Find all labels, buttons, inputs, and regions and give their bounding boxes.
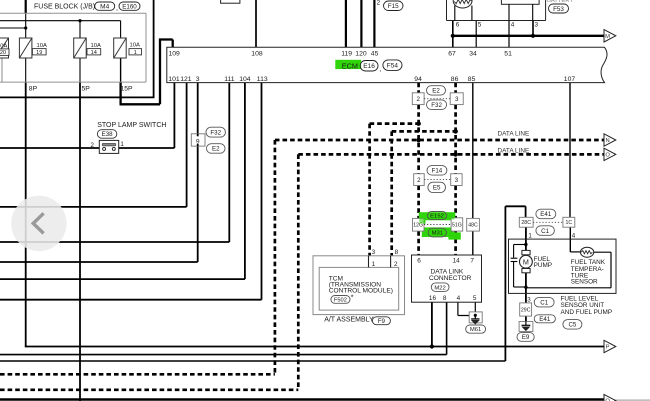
svg-text:,: , bbox=[379, 66, 381, 73]
svg-text:5: 5 bbox=[478, 21, 482, 28]
svg-text:F502: F502 bbox=[334, 298, 347, 304]
svg-text:E152: E152 bbox=[430, 214, 444, 220]
svg-text:E2: E2 bbox=[432, 88, 440, 95]
svg-text:8: 8 bbox=[395, 249, 399, 256]
svg-text:3: 3 bbox=[196, 76, 200, 83]
svg-text:,: , bbox=[116, 5, 118, 12]
svg-text:8: 8 bbox=[443, 295, 447, 302]
svg-text:101: 101 bbox=[168, 76, 180, 83]
svg-text:E41: E41 bbox=[539, 316, 551, 323]
svg-text:F9: F9 bbox=[378, 318, 386, 325]
svg-text:10A: 10A bbox=[91, 43, 101, 49]
svg-text:94: 94 bbox=[414, 76, 422, 83]
svg-text:DATA LINE: DATA LINE bbox=[498, 148, 530, 155]
svg-text:C1: C1 bbox=[541, 228, 549, 235]
svg-text:F15: F15 bbox=[388, 3, 399, 10]
svg-text:16: 16 bbox=[429, 295, 437, 302]
svg-text:2: 2 bbox=[417, 177, 421, 184]
svg-text:E2: E2 bbox=[212, 146, 220, 153]
svg-text:*: * bbox=[351, 292, 354, 301]
svg-text:SENSOR: SENSOR bbox=[571, 278, 598, 285]
svg-text:A/T ASSEMBLY: A/T ASSEMBLY bbox=[324, 316, 374, 323]
svg-text:3: 3 bbox=[535, 21, 539, 28]
svg-text:5P: 5P bbox=[82, 86, 91, 93]
svg-text:M22: M22 bbox=[434, 285, 445, 291]
svg-text:M31: M31 bbox=[432, 231, 443, 237]
svg-text:119: 119 bbox=[341, 50, 352, 57]
svg-text:F54: F54 bbox=[387, 63, 399, 70]
svg-text:29C: 29C bbox=[521, 307, 531, 313]
svg-text:14: 14 bbox=[91, 50, 97, 56]
svg-text:4: 4 bbox=[572, 233, 576, 240]
svg-text:N: N bbox=[606, 138, 610, 144]
svg-text:1: 1 bbox=[120, 141, 124, 148]
svg-text:F32: F32 bbox=[431, 102, 442, 109]
svg-text:E41: E41 bbox=[540, 211, 552, 218]
svg-text:34: 34 bbox=[469, 50, 477, 57]
svg-text:C1: C1 bbox=[540, 300, 548, 307]
svg-text:19: 19 bbox=[36, 50, 42, 56]
svg-text:10A: 10A bbox=[130, 43, 140, 49]
svg-text:1: 1 bbox=[372, 261, 376, 268]
svg-text:M: M bbox=[605, 34, 610, 40]
svg-text:1: 1 bbox=[528, 233, 532, 240]
svg-text:STOP LAMP SWITCH: STOP LAMP SWITCH bbox=[97, 122, 166, 129]
svg-text:51G: 51G bbox=[452, 222, 462, 228]
svg-text:6: 6 bbox=[456, 21, 460, 28]
svg-text:P: P bbox=[606, 345, 610, 351]
svg-text:67: 67 bbox=[448, 50, 456, 57]
svg-text:E9: E9 bbox=[522, 334, 530, 341]
svg-text:PUMP: PUMP bbox=[534, 262, 552, 269]
svg-text:2: 2 bbox=[91, 142, 95, 149]
svg-text:10A: 10A bbox=[37, 43, 47, 49]
svg-text:E5: E5 bbox=[433, 185, 441, 192]
svg-text:3: 3 bbox=[455, 177, 459, 184]
svg-text:4: 4 bbox=[457, 295, 461, 302]
svg-text:3: 3 bbox=[372, 249, 376, 256]
svg-text:20: 20 bbox=[0, 50, 6, 56]
svg-text:7: 7 bbox=[470, 258, 474, 265]
svg-text:M61: M61 bbox=[470, 327, 481, 333]
svg-text:E16: E16 bbox=[363, 63, 375, 70]
svg-text:AND FUEL PUMP: AND FUEL PUMP bbox=[561, 309, 613, 316]
svg-text:108: 108 bbox=[251, 50, 263, 57]
svg-text:15P: 15P bbox=[121, 86, 134, 93]
svg-text:5: 5 bbox=[473, 295, 477, 302]
svg-text:120: 120 bbox=[355, 50, 367, 57]
svg-text:3: 3 bbox=[455, 96, 459, 103]
svg-text:M4: M4 bbox=[100, 4, 109, 11]
svg-text:4: 4 bbox=[511, 21, 515, 28]
svg-text:6: 6 bbox=[417, 258, 421, 265]
svg-text:2: 2 bbox=[394, 261, 398, 268]
svg-text:E38: E38 bbox=[102, 131, 114, 138]
svg-text:104: 104 bbox=[239, 76, 251, 83]
svg-text:9: 9 bbox=[196, 138, 200, 145]
svg-text:M: M bbox=[523, 257, 529, 266]
svg-text:DATA LINE: DATA LINE bbox=[498, 131, 530, 138]
svg-text:1: 1 bbox=[134, 50, 137, 56]
svg-text:ECM: ECM bbox=[342, 61, 358, 70]
svg-text:85: 85 bbox=[468, 76, 476, 83]
svg-text:O: O bbox=[605, 153, 610, 159]
svg-text:CONNECTOR: CONNECTOR bbox=[429, 275, 472, 282]
svg-text:107: 107 bbox=[564, 76, 576, 83]
svg-text:51: 51 bbox=[504, 50, 512, 57]
svg-text:8P: 8P bbox=[29, 86, 38, 93]
svg-text:121: 121 bbox=[180, 76, 192, 83]
svg-text:E160: E160 bbox=[122, 3, 137, 10]
svg-text:FUSE BLOCK (J/B): FUSE BLOCK (J/B) bbox=[34, 4, 95, 11]
svg-text:14: 14 bbox=[453, 258, 461, 265]
svg-text:F14: F14 bbox=[432, 168, 443, 175]
svg-text:111: 111 bbox=[224, 76, 235, 83]
svg-text:F32: F32 bbox=[210, 129, 221, 136]
svg-text:F53: F53 bbox=[553, 6, 564, 13]
svg-text:2: 2 bbox=[416, 96, 420, 103]
svg-text:86: 86 bbox=[451, 76, 459, 83]
svg-text:C5: C5 bbox=[568, 322, 576, 329]
svg-text:2: 2 bbox=[377, 0, 381, 7]
svg-text:45: 45 bbox=[371, 50, 379, 57]
svg-text:48C: 48C bbox=[468, 223, 478, 229]
svg-text:28C: 28C bbox=[521, 220, 531, 226]
svg-text:109: 109 bbox=[169, 50, 181, 57]
svg-text:113: 113 bbox=[257, 76, 268, 83]
svg-text:CONTROL MODULE): CONTROL MODULE) bbox=[329, 287, 393, 294]
svg-text:1C: 1C bbox=[565, 220, 572, 226]
svg-text:BATTERY: BATTERY bbox=[547, 0, 573, 4]
